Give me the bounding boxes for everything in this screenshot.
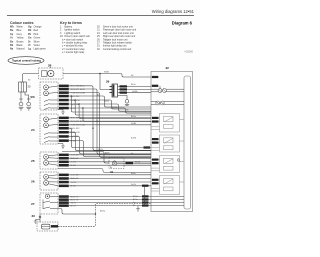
lock unit box 24 xyxy=(151,156,184,173)
wire labels box 24 rows xyxy=(59,117,69,142)
svg-text:Grey: Grey xyxy=(17,33,23,36)
svg-text:Gn/Ye: Gn/Ye xyxy=(131,184,136,186)
svg-text:29: 29 xyxy=(106,80,110,84)
wire tailgate switch lower row xyxy=(58,209,96,215)
svg-text:Central locking control unit: Central locking control unit xyxy=(103,48,132,51)
svg-text:Light green: Light green xyxy=(34,48,47,51)
svg-text:Bk/Ye: Bk/Ye xyxy=(133,199,138,201)
svg-text:e = interior light relay: e = interior light relay xyxy=(62,51,85,54)
relay contacts group 2 xyxy=(151,101,184,105)
svg-text:32: 32 xyxy=(166,66,170,70)
ground on bottom wire xyxy=(136,206,140,212)
svg-text:Bn: Bn xyxy=(10,40,14,43)
entry label interior light wire xyxy=(152,162,159,164)
svg-text:Gn/Wh: Gn/Wh xyxy=(132,91,138,93)
svg-text:24: 24 xyxy=(31,128,35,132)
entry label top wire xyxy=(152,76,159,78)
switch box 27 xyxy=(31,193,58,214)
lock unit box 25 xyxy=(151,176,184,195)
bus to bottom wires xyxy=(144,186,146,206)
svg-text:Bk/Bu: Bk/Bu xyxy=(131,173,136,175)
junction dots box 23 branches xyxy=(71,95,72,96)
switch box 26 xyxy=(31,172,58,190)
svg-text:Blue: Blue xyxy=(17,29,23,32)
svg-text:Sr: Sr xyxy=(28,40,31,43)
svg-text:26: 26 xyxy=(31,180,35,184)
wire labels box 23 rows xyxy=(59,85,69,110)
wires below fuse xyxy=(19,92,30,102)
junction dots xyxy=(96,121,97,122)
entry label wire 147 xyxy=(144,146,151,148)
svg-text:Pink: Pink xyxy=(34,33,40,36)
svg-text:White: White xyxy=(17,26,24,29)
switch box 24 xyxy=(31,114,58,144)
svg-text:Bk/Gn: Bk/Gn xyxy=(133,196,138,198)
svg-text:Bk/Gy: Bk/Gy xyxy=(100,210,105,212)
svg-text:28: 28 xyxy=(48,64,52,68)
lock unit box 21 xyxy=(151,135,184,152)
svg-text:Rd: Rd xyxy=(28,80,30,82)
svg-text:27: 27 xyxy=(31,202,35,206)
svg-text:Bk: Bk xyxy=(110,167,112,169)
motor unit 28 xyxy=(39,64,64,80)
svg-text:Green: Green xyxy=(34,37,41,40)
svg-text:Rd: Rd xyxy=(131,75,133,77)
ground below connector 29 xyxy=(125,100,129,106)
ground symbol right xyxy=(26,102,31,110)
svg-text:Yellow: Yellow xyxy=(17,37,24,40)
diagram title oval xyxy=(8,57,44,65)
svg-text:Rd/Ye 3/12: Rd/Ye 3/12 xyxy=(71,128,80,130)
interior light 31 xyxy=(62,152,151,174)
svg-text:Bk/Ye: Bk/Ye xyxy=(131,84,136,86)
svg-text:25: 25 xyxy=(31,159,35,163)
svg-text:Wh/Bk: Wh/Bk xyxy=(135,161,140,163)
svg-text:31: 31 xyxy=(110,170,114,174)
svg-text:Gn: Gn xyxy=(131,153,133,155)
svg-text:Red: Red xyxy=(34,29,39,32)
wires box 24 to control unit xyxy=(69,118,151,157)
svg-text:Black: Black xyxy=(17,44,24,47)
svg-text:Violet: Violet xyxy=(34,44,40,47)
svg-text:Lg: Lg xyxy=(28,48,31,51)
svg-text:Rd/Bk: Rd/Bk xyxy=(104,72,109,74)
svg-text:Silver: Silver xyxy=(34,40,40,43)
svg-text:Gy/Bk: Gy/Bk xyxy=(104,101,109,103)
svg-text:Wiring diagrams 12•51: Wiring diagrams 12•51 xyxy=(152,9,195,14)
svg-text:Bk/Wh: Bk/Wh xyxy=(112,107,117,109)
switch box 23 xyxy=(31,82,58,110)
svg-text:Gn: Gn xyxy=(28,37,32,40)
scattered wire code labels xyxy=(28,72,140,213)
svg-text:Bk/Pk: Bk/Pk xyxy=(105,153,110,155)
svg-text:Bk/Gn: Bk/Gn xyxy=(131,116,136,118)
wire boot module to control unit (dashed) xyxy=(58,204,151,227)
boot lock module box 33 xyxy=(32,204,152,232)
colour code rows xyxy=(10,26,46,51)
relay contacts group 1 xyxy=(151,86,184,93)
svg-text:Gy: Gy xyxy=(133,202,135,204)
wires box 23 to control unit xyxy=(69,86,151,158)
svg-text:Vt: Vt xyxy=(28,44,31,47)
control module narrow unit xyxy=(184,76,191,209)
svg-text:Gn: Gn xyxy=(126,109,128,111)
wire below box 25 xyxy=(58,169,151,173)
svg-text:Brown: Brown xyxy=(17,40,25,43)
svg-text:Colour codes: Colour codes xyxy=(10,21,34,25)
ground below box 23 xyxy=(58,110,65,115)
ground symbol left xyxy=(19,102,24,110)
svg-text:Rd: Rd xyxy=(28,29,32,32)
svg-text:Bu: Bu xyxy=(10,29,14,32)
fixing screw symbol xyxy=(177,159,180,162)
svg-text:Typical central locking: Typical central locking xyxy=(12,59,41,63)
wire motor to control box xyxy=(63,74,151,78)
switch box 25 xyxy=(31,152,58,169)
header rule xyxy=(7,15,194,17)
svg-text:Bk: Bk xyxy=(30,97,32,99)
lock unit box 20 xyxy=(151,114,184,133)
svg-text:Key to items: Key to items xyxy=(60,21,82,25)
svg-text:Natural: Natural xyxy=(17,48,25,51)
svg-text:Gn/Ye: Gn/Ye xyxy=(98,149,103,151)
svg-text:Wh: Wh xyxy=(10,26,14,29)
svg-text:Og: Og xyxy=(28,26,32,29)
control unit outer box 32 xyxy=(151,72,193,212)
wire motor to fuse xyxy=(23,74,39,83)
ground below box 24 xyxy=(58,144,65,149)
svg-text:Bk: Bk xyxy=(133,205,135,207)
svg-text:33: 33 xyxy=(32,214,36,218)
fuse 30 xyxy=(19,82,31,92)
svg-text:Diagram 6: Diagram 6 xyxy=(172,21,193,26)
svg-text:H33260: H33260 xyxy=(185,51,194,54)
svg-text:Gn/Bk: Gn/Bk xyxy=(131,123,136,125)
connector 29 xyxy=(99,73,151,100)
key to items rows xyxy=(60,26,136,55)
svg-text:Orange: Orange xyxy=(34,26,43,29)
svg-text:Bk: Bk xyxy=(97,94,99,96)
svg-text:Bu/Rd: Bu/Rd xyxy=(131,138,136,140)
